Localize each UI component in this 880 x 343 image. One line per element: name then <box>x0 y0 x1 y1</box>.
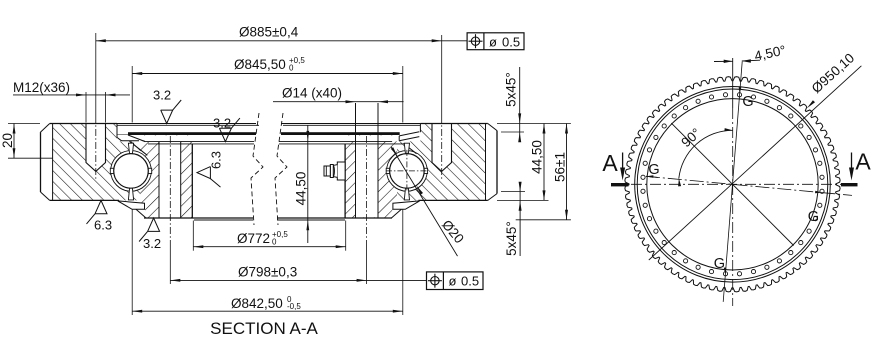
horizontal center line <box>612 183 856 185</box>
svg-text:G: G <box>714 256 725 272</box>
inner ring left: bore face and bottom <box>191 144 193 218</box>
dimension D772 <box>193 246 345 248</box>
ball right <box>390 154 425 189</box>
diagonal D950 leader line through center <box>649 66 862 260</box>
svg-text:G: G <box>648 162 659 178</box>
right side ext lines <box>497 123 571 125</box>
upper race plug left <box>128 143 133 154</box>
top band line far edge <box>117 124 259 126</box>
bottom seal left <box>118 201 145 209</box>
svg-text:SECTION A-A: SECTION A-A <box>210 319 318 338</box>
D14 hole right center line <box>366 136 368 240</box>
white mounting hole D14 left <box>159 141 181 217</box>
outline geared ring right: top edge, chamfers, gear face <box>420 123 487 125</box>
spigot circle <box>637 89 828 280</box>
D14 hole right walls ext to dim <box>355 103 357 142</box>
finish symbol 3.2 under inner ring <box>148 218 160 231</box>
vertical center line <box>732 58 734 108</box>
race land line <box>145 141 254 143</box>
gear tooth boundary line right <box>485 124 487 201</box>
svg-text:44,50: 44,50 <box>294 172 309 206</box>
dimension D20 ball <box>391 147 457 257</box>
M12 ext lines left <box>85 92 87 123</box>
dimension 20 left <box>8 123 40 125</box>
svg-text:ø: ø <box>449 274 457 289</box>
dimension D842,50 <box>132 310 403 312</box>
bottom edge inner rings and bore <box>144 217 253 219</box>
G hole axis line top-bottom (4.5deg) <box>723 62 742 302</box>
ext lines D845/D842 right <box>402 66 404 123</box>
break line 2 <box>275 113 287 225</box>
svg-text:6.3: 6.3 <box>209 151 224 169</box>
grease nipple G on right bore face <box>337 162 345 180</box>
svg-text:-0,5: -0,5 <box>287 302 301 311</box>
seal land slope left <box>128 135 145 142</box>
svg-text:Ø885±0,4: Ø885±0,4 <box>239 24 299 39</box>
chamfer label 5x45 top <box>519 67 521 140</box>
D14 hole right walls <box>355 142 357 218</box>
dimension 56+-1 right <box>566 124 568 220</box>
feature control frame top <box>467 33 524 50</box>
ring OD circle <box>635 87 831 283</box>
M12 center line left <box>95 33 97 116</box>
D14 hole left center line <box>169 136 171 240</box>
seal recess wall left <box>116 124 118 136</box>
dimension 44,50 right <box>543 124 545 201</box>
svg-text:G: G <box>808 209 819 225</box>
svg-text:3.2: 3.2 <box>213 116 231 131</box>
svg-text:M12(x36): M12(x36) <box>13 80 70 95</box>
svg-text:G: G <box>742 94 753 110</box>
lower race plug left <box>128 188 133 200</box>
race shoulder slope right <box>404 143 417 153</box>
raceway circle right <box>387 151 428 192</box>
finish symbol 3.2 top left <box>161 110 173 123</box>
inner ring right section (hatched) <box>345 135 397 218</box>
4,50 degree dimension <box>714 60 733 62</box>
90 degree arc <box>679 130 733 178</box>
gear teeth circle <box>625 77 840 292</box>
white bore opening between sections <box>193 144 345 217</box>
outline geared ring left: top edge, chamfers, gear face <box>50 123 117 125</box>
bore circle <box>647 99 818 270</box>
upper race plug right <box>404 143 409 154</box>
G hole axis line left-right (5.3deg) <box>646 176 658 177</box>
feature control frame bottom <box>427 272 484 290</box>
inner ring right: bore face <box>344 144 346 218</box>
lower race slope right <box>391 209 401 218</box>
svg-text:0: 0 <box>289 63 294 72</box>
M12 tapped hole right outline <box>432 124 452 172</box>
svg-text:3.2: 3.2 <box>153 88 171 103</box>
svg-text:0: 0 <box>272 237 277 246</box>
finish symbol 6.3 under geared ring <box>95 200 107 213</box>
white M12 tapped hole right <box>432 124 452 172</box>
race gap tab right side left <box>148 168 152 173</box>
ext lines D845/D842 left <box>131 66 133 123</box>
dimension D885 <box>96 40 442 42</box>
white mounting hole D14 right <box>356 141 379 217</box>
chamfer label 5x45 bottom <box>519 183 521 256</box>
white ball clearance right <box>387 151 428 192</box>
seal band (black) <box>128 132 256 135</box>
svg-text:A: A <box>602 150 618 176</box>
M12 tapped hole left outline <box>86 124 106 172</box>
dimension 44,50 mid <box>307 125 309 243</box>
svg-text:44,50: 44,50 <box>530 140 545 174</box>
fcf leader top <box>442 40 467 42</box>
white top band between rings <box>117 124 420 135</box>
svg-text:ø: ø <box>489 34 497 49</box>
raceway circle left <box>111 151 152 192</box>
svg-text:5x45°: 5x45° <box>504 72 519 107</box>
inner ring left section (hatched) <box>141 135 193 218</box>
race gap tab left side left <box>110 168 114 173</box>
finish symbol 3.2 mid <box>219 128 231 141</box>
svg-text:Ø14 (x40): Ø14 (x40) <box>282 86 342 101</box>
svg-text:20: 20 <box>0 133 15 148</box>
bottom seal right <box>393 201 420 209</box>
break line 1 <box>251 113 263 225</box>
M12 center line right / ext of D885 <box>441 35 443 116</box>
D14 hole left walls <box>158 142 160 218</box>
race gap tab left side right <box>386 168 390 173</box>
svg-text:Ø845,50: Ø845,50 <box>234 57 286 72</box>
svg-text:A: A <box>855 149 871 175</box>
svg-text:5x45°: 5x45° <box>504 221 519 256</box>
dimension D845,50 <box>132 73 403 75</box>
bolt holes x40 <box>820 175 824 179</box>
svg-text:0.5: 0.5 <box>502 34 520 49</box>
race shoulder slope left <box>130 141 148 155</box>
ball left <box>114 154 149 189</box>
outer geared ring left section (hatched) <box>53 124 141 201</box>
svg-text:Ø798±0,3: Ø798±0,3 <box>238 264 297 279</box>
outer geared ring right section (hatched) <box>397 124 486 201</box>
seal land slope left redraw <box>128 135 145 142</box>
second diagonal line <box>671 123 793 245</box>
svg-text:3.2: 3.2 <box>143 236 161 251</box>
dimension D798 <box>170 279 426 281</box>
seal recess wall right <box>419 124 421 133</box>
lower race slope left <box>136 209 146 218</box>
top edge continuation across break <box>117 123 256 125</box>
bore chamfer back edge <box>148 143 254 145</box>
ball center lines right <box>386 170 428 172</box>
svg-text:56±1: 56±1 <box>553 152 568 182</box>
lower race plug right <box>404 188 409 200</box>
race gap tab right side right <box>424 168 428 173</box>
svg-text:Ø842,50: Ø842,50 <box>231 296 283 311</box>
white below seal right <box>392 210 416 219</box>
top seal left <box>117 135 143 141</box>
finish symbol 6.3 at bore face <box>197 167 210 179</box>
white ball clearance left <box>111 151 152 192</box>
gear tooth boundary line left <box>52 124 54 201</box>
white M12 tapped hole left <box>86 124 106 172</box>
top seal right (slanted bar) <box>399 132 419 141</box>
white below seal left <box>121 210 145 219</box>
svg-text:6.3: 6.3 <box>94 218 112 233</box>
white seal groove band <box>117 135 420 141</box>
svg-text:0.5: 0.5 <box>461 274 479 289</box>
svg-text:Ø772: Ø772 <box>237 231 270 246</box>
